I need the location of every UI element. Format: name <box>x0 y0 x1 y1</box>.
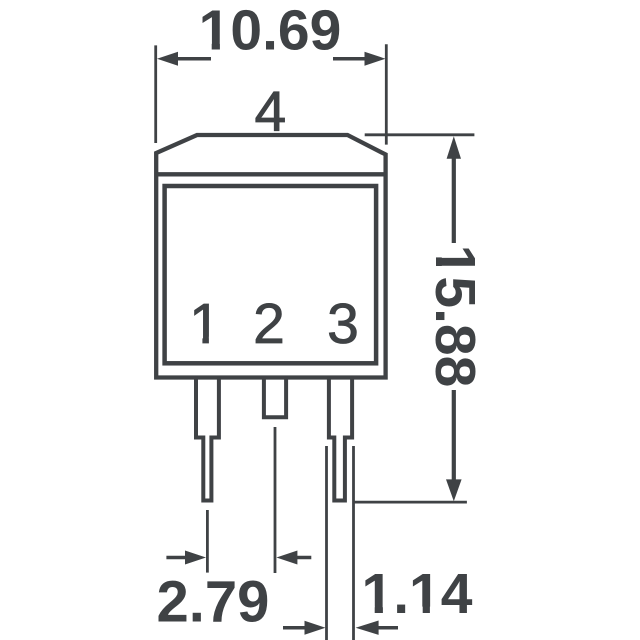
svg-text:1.14: 1.14 <box>362 562 473 626</box>
svg-text:2: 2 <box>253 292 285 356</box>
svg-text:4: 4 <box>255 80 287 144</box>
svg-text:2.79: 2.79 <box>156 569 269 634</box>
svg-text:3: 3 <box>327 292 359 356</box>
svg-text:15.88: 15.88 <box>423 245 487 388</box>
svg-text:1: 1 <box>189 292 221 356</box>
svg-text:10.69: 10.69 <box>199 0 342 62</box>
